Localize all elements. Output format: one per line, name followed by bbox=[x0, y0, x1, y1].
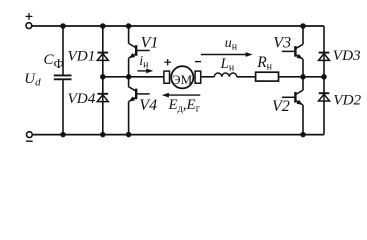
svg-text:VD2: VD2 bbox=[333, 92, 361, 109]
svg-text:Eд,Eг: Eд,Eг bbox=[168, 97, 200, 115]
svg-text:V2: V2 bbox=[272, 98, 290, 115]
svg-text:ЭМ: ЭМ bbox=[172, 72, 193, 87]
svg-text:VD4: VD4 bbox=[68, 90, 96, 107]
svg-text:VD1: VD1 bbox=[68, 48, 96, 65]
svg-text:VD3: VD3 bbox=[333, 47, 361, 64]
svg-text:V1: V1 bbox=[141, 34, 159, 51]
svg-text:V4: V4 bbox=[139, 97, 157, 114]
svg-text:V3: V3 bbox=[273, 35, 291, 52]
